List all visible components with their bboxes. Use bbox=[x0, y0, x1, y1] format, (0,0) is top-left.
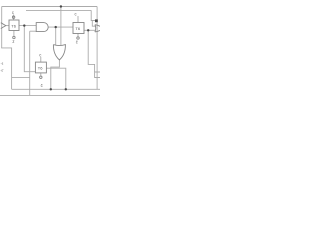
box T6 #2 bbox=[73, 23, 84, 34]
bus D bottom bbox=[0, 94, 100, 96]
svg-text:c̄: c̄ bbox=[76, 40, 78, 45]
rect1 top edge and right edge bbox=[1, 48, 11, 89]
node dot AND out to OR bbox=[55, 26, 57, 28]
bubble box1 bottom bbox=[13, 36, 15, 38]
svg-text:-ε: -ε bbox=[1, 61, 4, 65]
node dot A box1 out bbox=[23, 24, 25, 26]
cut gate at right edge bbox=[95, 25, 100, 32]
node dot bus A x61.3 bbox=[60, 5, 62, 7]
svg-text:T6: T6 bbox=[11, 24, 16, 29]
wire box2 output to cut gate bbox=[84, 29, 96, 31]
input arrow left bbox=[1, 23, 6, 29]
svg-text:c: c bbox=[75, 12, 77, 17]
clock stem box3 bottom bbox=[40, 73, 42, 76]
svg-text:T6: T6 bbox=[75, 26, 80, 31]
svg-text:c̄: c̄ bbox=[41, 83, 43, 88]
box T6 #1 bbox=[9, 20, 19, 31]
wire vertical x29.9 feedback bbox=[29, 31, 31, 95]
bus A top bbox=[2, 6, 97, 8]
OR gate pointing down bbox=[53, 45, 65, 60]
wire AND input 2 stub bbox=[30, 30, 37, 32]
wire box1 output to AND input 1 bbox=[19, 25, 36, 27]
wire vertical x24.3 from node A down bbox=[24, 26, 35, 72]
bubble box2 bottom bbox=[77, 37, 79, 39]
wire OR gate output jog to bus C bbox=[51, 60, 60, 90]
terminal square bbox=[95, 19, 98, 22]
clock stem box2 bottom bbox=[77, 34, 79, 37]
wire box3 output loop to bus C bbox=[46, 68, 65, 89]
AND gate bbox=[36, 23, 48, 32]
svg-text:c: c bbox=[39, 53, 41, 58]
box T6 #3 bbox=[35, 62, 46, 73]
svg-text:-ε̄: -ε̄ bbox=[0, 68, 4, 72]
svg-text:c: c bbox=[12, 10, 14, 15]
wire vertical x55.7 AND out to OR gate bbox=[55, 27, 57, 45]
clock stem box1 bottom bbox=[13, 31, 15, 37]
wire vertical x61.3 bus A to OR gate bbox=[60, 7, 62, 46]
node dot box2 out bbox=[87, 29, 89, 31]
clock stem box1 top bbox=[13, 15, 15, 21]
wire box1 input stub bbox=[6, 25, 10, 27]
wire AND output to box2 bbox=[48, 26, 73, 28]
box4 cut right bottom bbox=[95, 72, 100, 78]
clock stem box3 top bbox=[40, 57, 42, 62]
bubble box1 top bbox=[12, 16, 14, 18]
node dot box3 out on bus C bbox=[65, 88, 67, 90]
wire horizontal y76.6 segment bbox=[12, 76, 30, 78]
wire left drop from bus A bbox=[1, 7, 3, 48]
bubble box3 bottom bbox=[40, 76, 42, 78]
wire bus B right drop bbox=[91, 10, 95, 20]
wire branch to cut gate upper input bbox=[92, 21, 95, 26]
wire vertical x88.2 down then to box4 bbox=[88, 30, 94, 72]
bus C lower with left corner up bbox=[12, 88, 100, 90]
svg-text:T6: T6 bbox=[38, 66, 43, 71]
bus B second top bbox=[26, 9, 91, 11]
node dot OR out on bus C bbox=[50, 88, 52, 90]
svg-text:z: z bbox=[12, 39, 14, 44]
clock stem box2 top bbox=[77, 16, 79, 23]
wire right drop from bus A bbox=[96, 7, 98, 90]
